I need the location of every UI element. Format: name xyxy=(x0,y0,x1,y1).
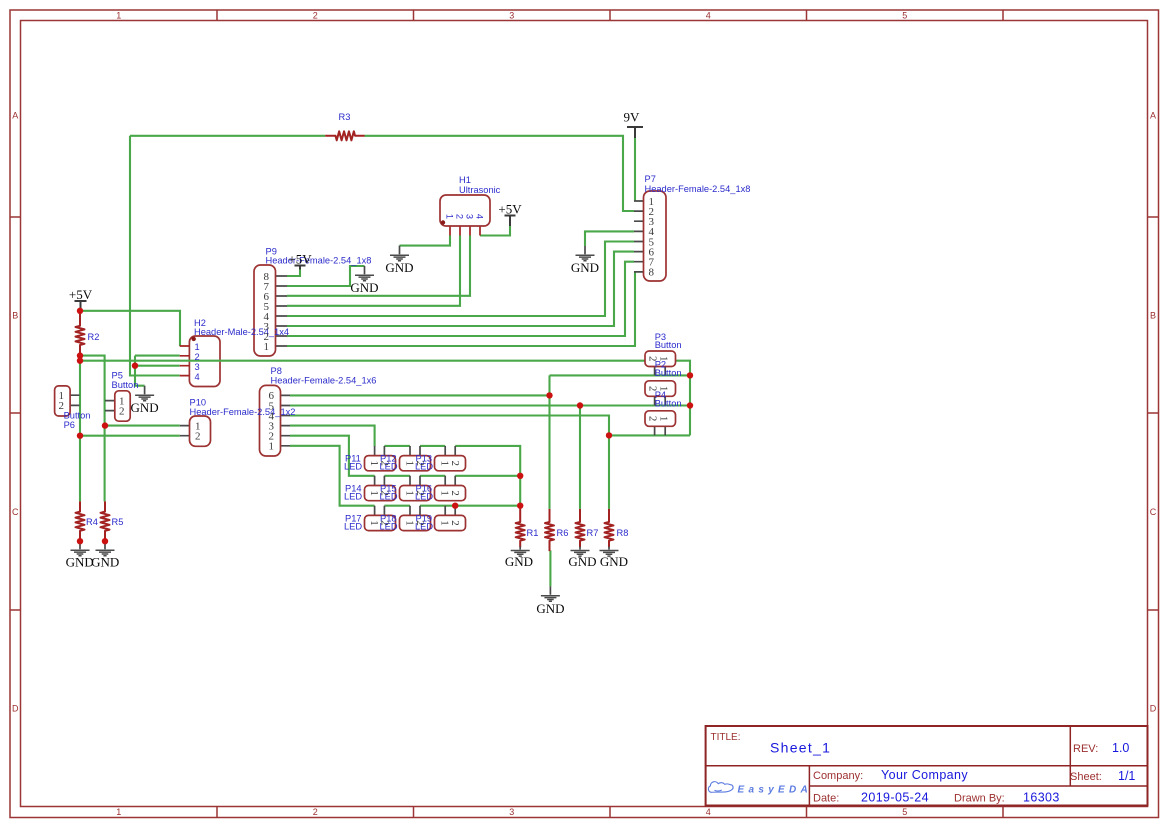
svg-text:2: 2 xyxy=(59,400,65,412)
svg-text:P7: P7 xyxy=(645,174,656,184)
svg-text:LED: LED xyxy=(344,491,362,501)
svg-text:2: 2 xyxy=(313,807,318,817)
svg-text:1: 1 xyxy=(368,520,380,526)
svg-text:GND: GND xyxy=(505,554,533,569)
svg-text:2: 2 xyxy=(379,490,391,496)
svg-text:1: 1 xyxy=(269,441,275,453)
svg-text:2019-05-24: 2019-05-24 xyxy=(861,791,929,805)
svg-text:2: 2 xyxy=(119,405,125,417)
svg-text:2: 2 xyxy=(449,490,461,496)
svg-text:4: 4 xyxy=(475,214,485,219)
svg-text:16303: 16303 xyxy=(1023,791,1060,805)
svg-text:R6: R6 xyxy=(557,528,569,538)
svg-text:9V: 9V xyxy=(624,110,641,125)
svg-text:B: B xyxy=(12,311,18,321)
svg-text:+5V: +5V xyxy=(498,202,522,217)
svg-text:Header-Male-2.54_1x4: Header-Male-2.54_1x4 xyxy=(194,327,289,337)
svg-text:Button: Button xyxy=(655,368,682,378)
svg-text:Sheet:: Sheet: xyxy=(1070,771,1102,783)
svg-text:Button: Button xyxy=(655,340,682,350)
svg-text:3: 3 xyxy=(195,362,200,372)
svg-text:1: 1 xyxy=(116,807,121,817)
svg-text:+5V: +5V xyxy=(69,287,93,302)
svg-text:GND: GND xyxy=(600,554,628,569)
svg-text:B: B xyxy=(1150,311,1156,321)
svg-text:GND: GND xyxy=(91,555,119,570)
svg-text:2: 2 xyxy=(414,460,426,466)
svg-text:R8: R8 xyxy=(617,528,629,538)
svg-text:1: 1 xyxy=(657,356,669,362)
svg-text:LED: LED xyxy=(344,462,362,472)
svg-text:GND: GND xyxy=(536,601,564,616)
svg-text:2: 2 xyxy=(647,356,659,362)
svg-text:Button: Button xyxy=(112,380,139,390)
svg-text:Header-Female-2.54_1x8: Header-Female-2.54_1x8 xyxy=(266,256,372,266)
svg-text:D: D xyxy=(12,704,19,714)
svg-text:2: 2 xyxy=(455,214,465,219)
svg-text:4: 4 xyxy=(706,807,711,817)
svg-text:Drawn By:: Drawn By: xyxy=(954,793,1005,805)
svg-text:1/1: 1/1 xyxy=(1118,769,1135,783)
svg-text:R7: R7 xyxy=(587,528,599,538)
svg-text:1.0: 1.0 xyxy=(1112,741,1129,755)
svg-text:C: C xyxy=(1150,507,1157,517)
svg-text:Button: Button xyxy=(655,399,682,409)
svg-text:LED: LED xyxy=(344,521,362,531)
svg-text:R5: R5 xyxy=(112,517,124,527)
svg-text:REV:: REV: xyxy=(1073,743,1098,755)
svg-text:2: 2 xyxy=(414,490,426,496)
svg-text:Your Company: Your Company xyxy=(881,768,968,782)
svg-text:1: 1 xyxy=(116,11,121,21)
svg-text:H1: H1 xyxy=(459,175,471,185)
svg-text:Sheet_1: Sheet_1 xyxy=(770,740,831,756)
svg-text:2: 2 xyxy=(379,460,391,466)
svg-text:3: 3 xyxy=(509,807,514,817)
svg-text:2: 2 xyxy=(647,386,659,392)
svg-text:P8: P8 xyxy=(271,366,282,376)
svg-text:P10: P10 xyxy=(190,398,207,408)
svg-text:Company:: Company: xyxy=(813,770,863,782)
svg-text:1: 1 xyxy=(404,490,416,496)
svg-text:Date:: Date: xyxy=(813,793,839,805)
svg-text:2: 2 xyxy=(449,460,461,466)
svg-text:2: 2 xyxy=(647,416,659,422)
svg-text:1: 1 xyxy=(445,214,455,219)
svg-text:1: 1 xyxy=(195,342,200,352)
svg-text:5: 5 xyxy=(902,807,907,817)
svg-text:Header-Female-2.54_1x2: Header-Female-2.54_1x2 xyxy=(190,407,296,417)
svg-text:Header-Female-2.54_1x6: Header-Female-2.54_1x6 xyxy=(271,376,377,386)
svg-text:GND: GND xyxy=(571,260,599,275)
svg-text:GND: GND xyxy=(385,260,413,275)
svg-text:8: 8 xyxy=(649,267,655,279)
svg-text:1: 1 xyxy=(404,520,416,526)
svg-text:EasyEDA: EasyEDA xyxy=(738,784,813,795)
svg-text:1: 1 xyxy=(657,386,669,392)
svg-text:1: 1 xyxy=(439,460,451,466)
svg-text:D: D xyxy=(1150,704,1157,714)
svg-text:GND: GND xyxy=(568,554,596,569)
svg-text:2: 2 xyxy=(313,11,318,21)
svg-text:1: 1 xyxy=(439,520,451,526)
svg-text:1: 1 xyxy=(404,460,416,466)
svg-text:1: 1 xyxy=(368,460,380,466)
svg-text:1: 1 xyxy=(439,490,451,496)
svg-text:Ultrasonic: Ultrasonic xyxy=(459,185,501,195)
svg-text:R3: R3 xyxy=(339,112,351,122)
svg-text:R2: R2 xyxy=(88,332,100,342)
svg-text:2: 2 xyxy=(414,520,426,526)
svg-text:1: 1 xyxy=(657,416,669,422)
svg-text:P6: P6 xyxy=(64,420,75,430)
svg-text:GND: GND xyxy=(66,555,94,570)
svg-text:2: 2 xyxy=(195,352,200,362)
svg-text:R1: R1 xyxy=(527,528,539,538)
svg-text:1: 1 xyxy=(368,490,380,496)
svg-text:4: 4 xyxy=(706,11,711,21)
svg-text:2: 2 xyxy=(379,520,391,526)
svg-text:A: A xyxy=(12,111,18,121)
svg-text:A: A xyxy=(1150,111,1156,121)
svg-text:+5V: +5V xyxy=(288,252,312,267)
svg-text:R4: R4 xyxy=(86,517,98,527)
svg-text:5: 5 xyxy=(902,11,907,21)
svg-text:TITLE:: TITLE: xyxy=(711,732,741,743)
svg-text:1: 1 xyxy=(264,341,270,353)
svg-text:GND: GND xyxy=(131,400,159,415)
svg-text:Button: Button xyxy=(64,411,91,421)
svg-text:P5: P5 xyxy=(112,371,123,381)
svg-text:2: 2 xyxy=(449,520,461,526)
svg-text:4: 4 xyxy=(195,372,200,382)
svg-text:3: 3 xyxy=(465,214,475,219)
svg-text:C: C xyxy=(12,507,19,517)
svg-text:GND: GND xyxy=(350,280,378,295)
svg-text:2: 2 xyxy=(195,431,201,443)
svg-text:Header-Female-2.54_1x8: Header-Female-2.54_1x8 xyxy=(645,184,751,194)
svg-text:3: 3 xyxy=(509,11,514,21)
